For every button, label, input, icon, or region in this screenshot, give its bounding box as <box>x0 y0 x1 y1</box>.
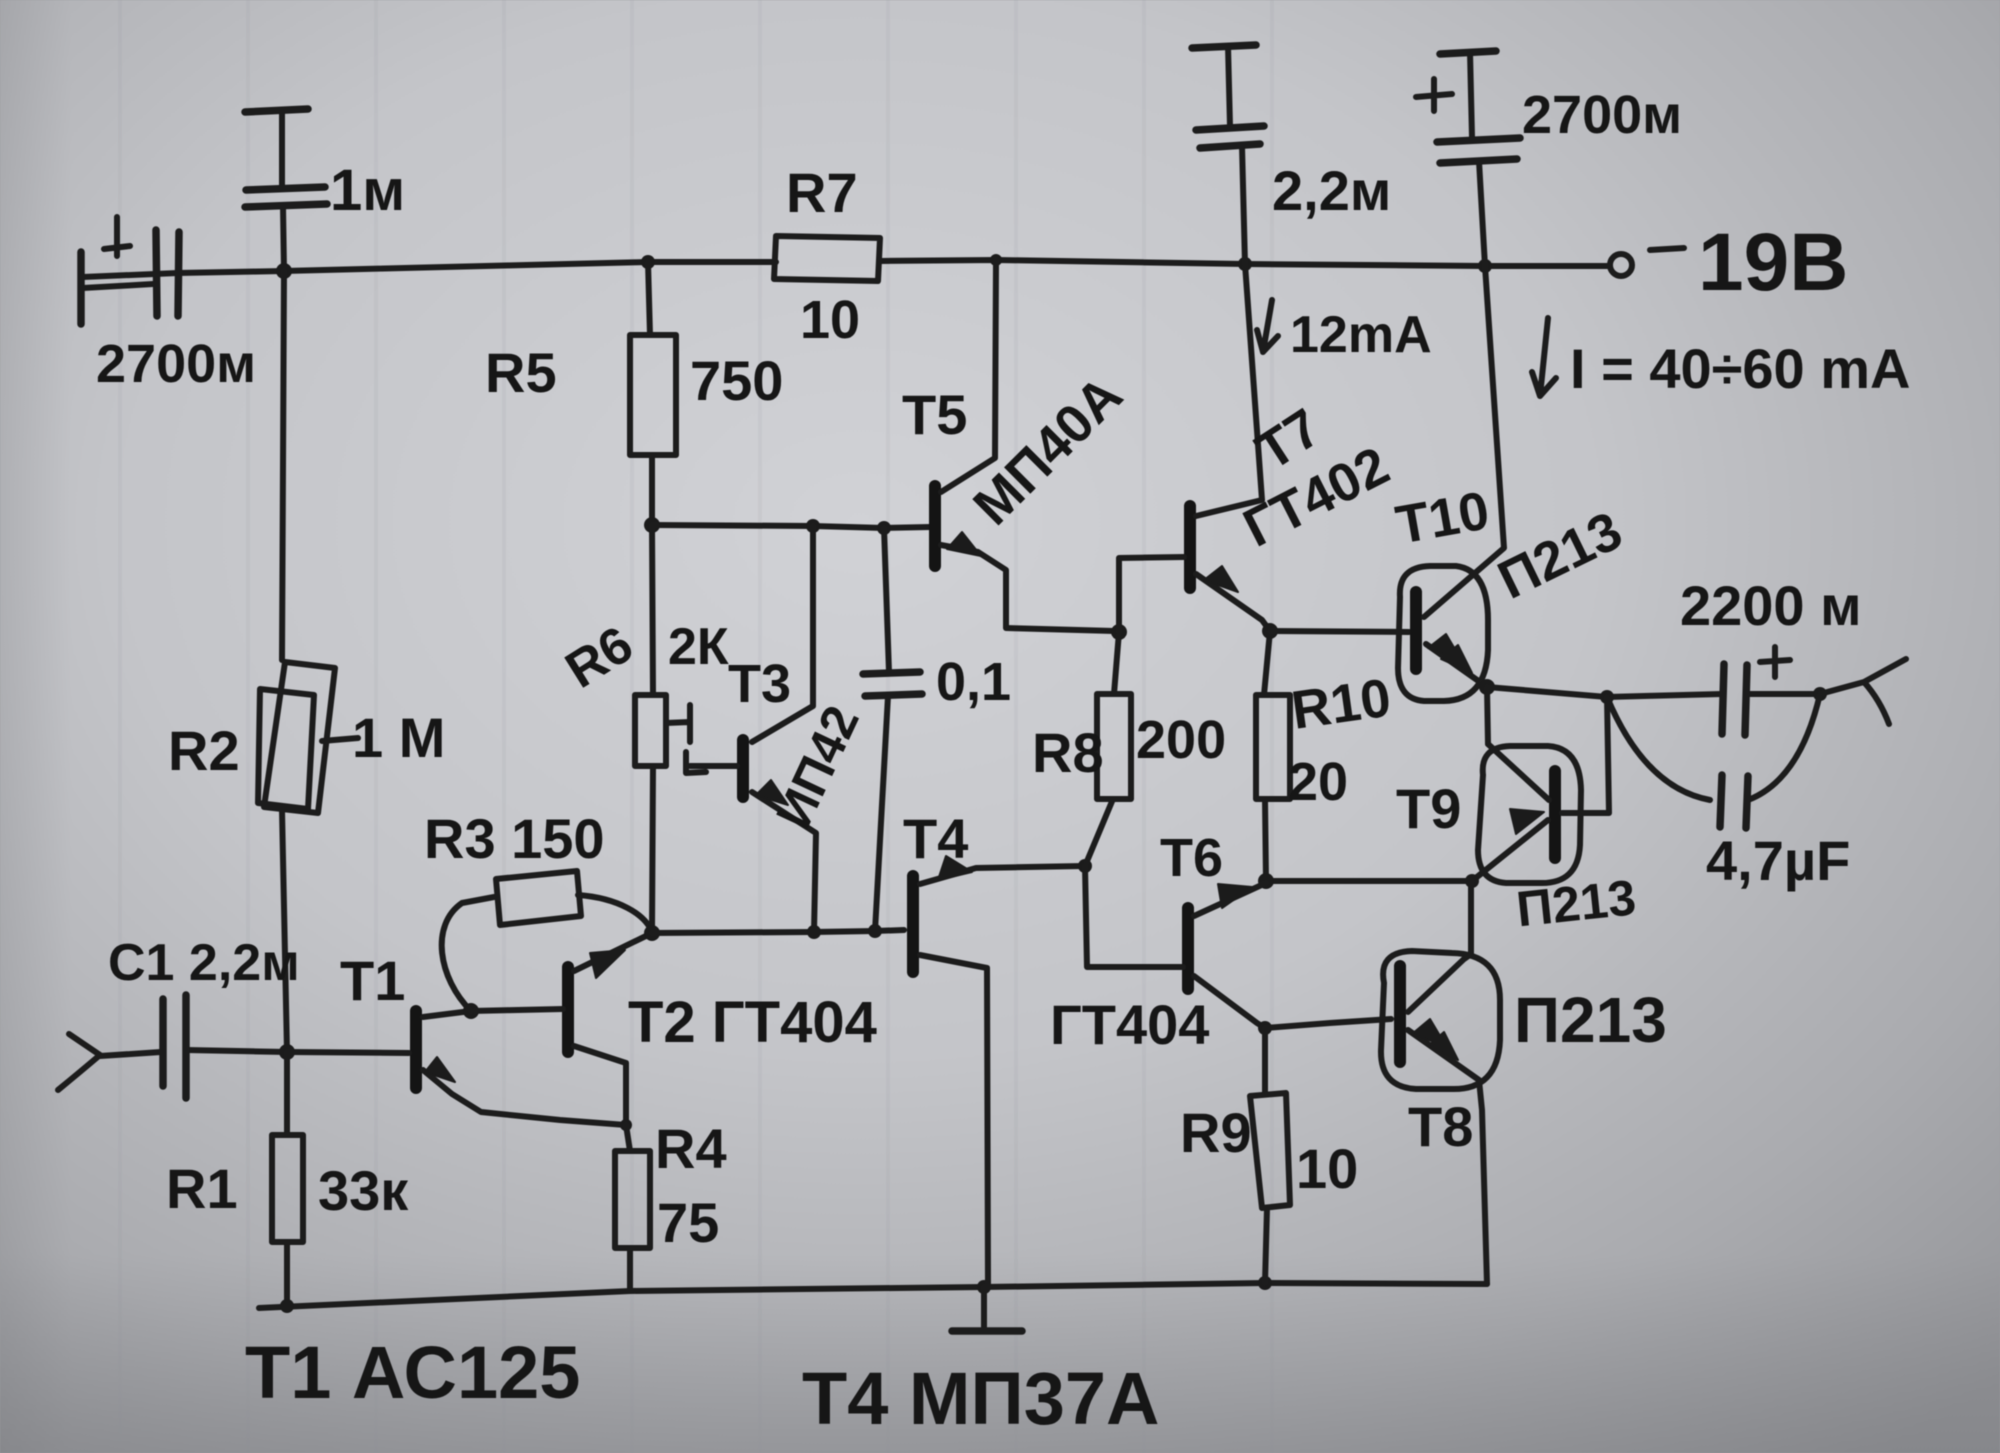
capacitor 1м <box>245 109 405 271</box>
ground <box>952 1287 1022 1331</box>
svg-text:Т1: Т1 <box>340 949 405 1012</box>
wire bottom rail <box>259 1283 1487 1308</box>
node output terminal junction <box>1813 687 1827 701</box>
wire T4 base net <box>652 930 904 933</box>
svg-text:Т2 ГТ404: Т2 ГТ404 <box>628 990 877 1055</box>
node T3 emitter junction <box>807 925 821 939</box>
svg-text:I = 40÷60 mA: I = 40÷60 mA <box>1570 337 1910 400</box>
svg-text:R4: R4 <box>655 1117 727 1180</box>
node bottom rail R9 <box>1258 1276 1272 1290</box>
node rail 2700м junction <box>1478 259 1492 273</box>
svg-text:10: 10 <box>1296 1137 1358 1200</box>
node T4 emitter / R8 junction <box>1078 859 1092 873</box>
capacitor 2700м (right) <box>1416 51 1682 266</box>
label I=40÷60 mA <box>1532 318 1910 400</box>
transistor T2 <box>471 934 877 1125</box>
wire 1м cap to R2 <box>282 271 284 660</box>
node input junction <box>279 1044 295 1060</box>
output terminal <box>1820 659 1906 724</box>
svg-text:Т4 МП37А: Т4 МП37А <box>802 1357 1160 1440</box>
node rail R5 junction <box>641 255 655 269</box>
capacitor 0.1 <box>863 528 1011 931</box>
svg-text:R5: R5 <box>485 341 557 404</box>
node T5 emitter / R8 junction <box>1111 624 1127 640</box>
resistor R6 2К trimmer <box>556 525 729 932</box>
svg-text:20: 20 <box>1288 752 1348 812</box>
node T4 base junction <box>868 924 882 938</box>
svg-text:2,2м: 2,2м <box>1272 159 1391 222</box>
node T2 collector / T1 emitter <box>620 1119 632 1131</box>
node bottom rail T4 <box>977 1280 991 1294</box>
svg-text:200: 200 <box>1136 710 1226 770</box>
wire T7 emitter to T10 base <box>1270 631 1409 632</box>
resistor R4 75 <box>615 1117 727 1291</box>
node rail-left junction <box>276 263 292 279</box>
svg-text:Т6: Т6 <box>1160 828 1223 888</box>
capacitor 2700м (left supply) <box>81 217 256 394</box>
resistor R2 1M <box>168 662 445 1052</box>
node T7 emitter junction <box>1262 623 1278 639</box>
svg-text:12mA: 12mA <box>1290 306 1432 364</box>
svg-text:19В: 19В <box>1698 217 1848 308</box>
resistor R8 200 <box>1032 632 1226 866</box>
capacitor C1 2,2м <box>108 934 300 1098</box>
node R5 bottom junction <box>644 517 660 533</box>
svg-text:2700м: 2700м <box>96 334 256 394</box>
node output 4,7 junction left <box>1600 690 1614 704</box>
wire T5 base net <box>652 525 930 528</box>
input terminal <box>58 1034 161 1090</box>
svg-text:П213: П213 <box>1514 984 1667 1056</box>
svg-text:2200 м: 2200 м <box>1680 574 1862 637</box>
svg-text:Т1 АС125: Т1 АС125 <box>245 1331 580 1414</box>
resistor R9 10 <box>1180 1028 1358 1283</box>
transistor T4 <box>903 807 1084 1287</box>
svg-text:2700м: 2700м <box>1522 85 1682 145</box>
resistor R10 20 <box>1256 631 1394 881</box>
wire T6 collector to T8 base <box>1265 1019 1391 1028</box>
node bottom rail R1 <box>280 1299 294 1313</box>
transistor T3 <box>690 526 870 932</box>
svg-text:Т5: Т5 <box>902 383 967 446</box>
svg-text:R7: R7 <box>786 161 858 224</box>
capacitor 2,2м <box>1192 45 1391 264</box>
node T1 collector / T2 base <box>463 1003 479 1019</box>
svg-text:10: 10 <box>800 290 860 350</box>
svg-text:С1 2,2м: С1 2,2м <box>108 934 300 992</box>
supply terminal -19В <box>1610 217 1848 308</box>
svg-text:Т8: Т8 <box>1408 1095 1473 1158</box>
svg-text:1м: 1м <box>330 158 405 223</box>
svg-text:33к: 33к <box>318 1159 409 1222</box>
svg-text:0,1: 0,1 <box>936 652 1011 712</box>
svg-text:Т4: Т4 <box>903 807 968 870</box>
node R10 bottom junction <box>1258 873 1274 889</box>
node T2 emitter junction <box>644 925 660 941</box>
wire T6 emitter net <box>1266 878 1472 884</box>
transistor T7 <box>1119 264 1398 632</box>
node T3 collector junction <box>806 519 820 533</box>
node 0.1 cap junction <box>877 521 891 535</box>
transistor T9 <box>1396 687 1638 937</box>
resistor R3 150 with loop <box>424 807 652 1011</box>
transistor T5 <box>902 260 1134 631</box>
svg-text:ГТ404: ГТ404 <box>1050 993 1209 1056</box>
node T9 emitter / T8 collector <box>1465 874 1479 888</box>
svg-text:750: 750 <box>690 349 783 412</box>
transistor T10 <box>1392 266 1632 701</box>
label 12mA <box>1257 300 1432 364</box>
transistor T6 <box>1050 828 1266 1056</box>
svg-text:R8: R8 <box>1032 721 1104 784</box>
svg-text:R9: R9 <box>1180 1101 1252 1164</box>
resistor R7 10 <box>774 161 880 350</box>
svg-text:Т9: Т9 <box>1396 777 1461 840</box>
capacitor 2200м <box>1680 574 1862 735</box>
node rail 2.2м junction <box>1238 257 1252 271</box>
resistor R1 33к <box>166 1052 409 1306</box>
wire top supply rail <box>83 260 1608 277</box>
wire output line <box>1487 687 1722 697</box>
svg-text:2К: 2К <box>668 618 729 676</box>
transistor T1 <box>287 949 626 1125</box>
svg-text:Т3: Т3 <box>728 654 791 714</box>
transistor T8 <box>1381 881 1667 1284</box>
svg-text:R1: R1 <box>166 1157 238 1220</box>
node rail T5 junction <box>990 254 1002 266</box>
node T6 collector junction <box>1258 1021 1272 1035</box>
svg-text:75: 75 <box>657 1191 719 1254</box>
svg-text:R3 150: R3 150 <box>424 807 605 870</box>
svg-text:4,7µF: 4,7µF <box>1706 829 1850 892</box>
resistor R5 750 <box>485 262 783 525</box>
node T10 emitter output junction <box>1479 679 1495 695</box>
capacitor 4,7мF <box>1607 694 1850 892</box>
svg-text:1 М: 1 М <box>352 706 445 769</box>
svg-text:R2: R2 <box>168 719 240 782</box>
